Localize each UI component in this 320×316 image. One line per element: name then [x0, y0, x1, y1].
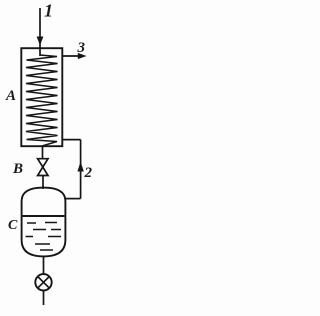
liquid level line in C — [23, 215, 65, 217]
arrow stream 1 (down) — [37, 37, 44, 46]
svg-text:A: A — [5, 88, 16, 104]
wire line 2 into C — [65, 198, 80, 200]
wire stream 1 inlet line — [39, 8, 41, 56]
arrow stream 3 (right) — [78, 53, 87, 59]
wire valve B to vessel C — [42, 176, 44, 190]
svg-text:1: 1 — [44, 1, 53, 21]
wire stub A to line 2 — [62, 139, 80, 141]
wire A bottom to valve B — [42, 146, 44, 158]
svg-text:3: 3 — [77, 40, 86, 56]
svg-text:C: C — [8, 218, 18, 233]
coil inside A — [26, 55, 58, 146]
wire C bottom outlet — [43, 256, 45, 274]
svg-text:B: B — [12, 161, 23, 177]
wire bottom outlet line — [43, 291, 45, 306]
vessel A (heat exchanger shell) — [21, 48, 62, 146]
arrow stream 2 (up) — [77, 162, 83, 172]
valve bottom (circle with X) — [35, 274, 51, 290]
liquid hatching dashes in C — [26, 223, 62, 251]
wire line 2 vertical — [80, 140, 82, 199]
wire stream 3 outlet line — [62, 55, 80, 57]
valve B (gate valve, vertical bowtie) — [38, 159, 48, 176]
vessel C (separator drum) — [22, 188, 66, 257]
svg-text:2: 2 — [84, 165, 93, 181]
